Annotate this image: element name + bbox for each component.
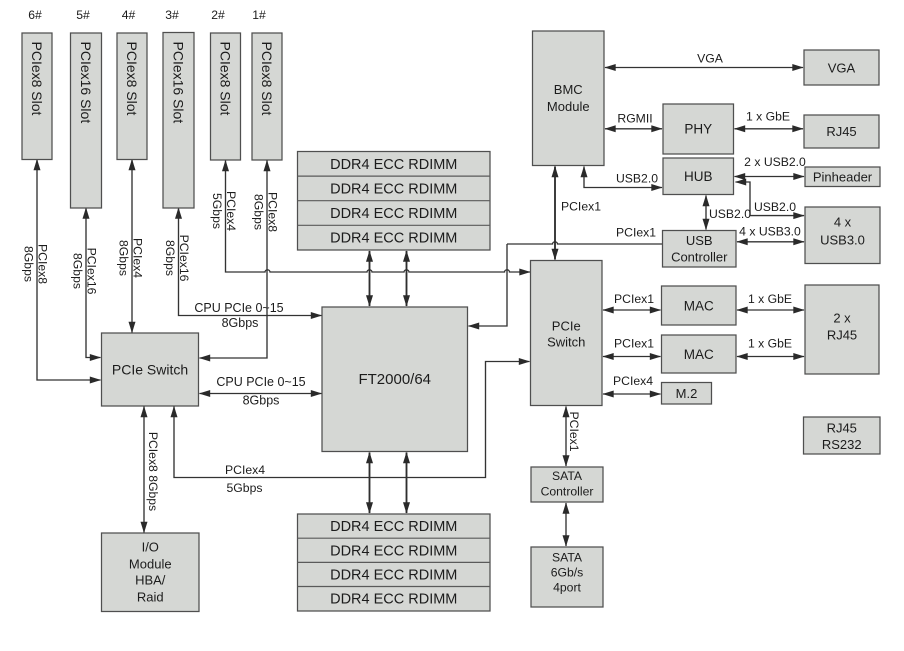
wire slot6 to left switch (22, 160, 101, 381)
wire node to USB controller PCIex1 (507, 226, 662, 245)
slot label 5# (76, 8, 90, 22)
wire slot5 to left switch (71, 208, 101, 358)
svg-text:PCIex8: PCIex8 (36, 244, 50, 284)
wire left switch to CPU (CPU PCIe 0~15 8Gbps) (200, 375, 322, 408)
svg-text:6Gb/s: 6Gb/s (551, 565, 584, 579)
svg-text:CPU PCIe 0~15: CPU PCIe 0~15 (216, 375, 305, 389)
upper DDR4 DIMM stack (298, 152, 491, 251)
svg-text:1#: 1# (252, 8, 266, 22)
svg-text:SATA: SATA (552, 550, 583, 564)
svg-text:I/O: I/O (142, 540, 159, 555)
svg-text:PCIex16 Slot: PCIex16 Slot (78, 42, 94, 124)
wire right switch to MAC1 PCIex1 (603, 292, 661, 310)
svg-text:FT2000/64: FT2000/64 (358, 371, 431, 388)
svg-text:USB: USB (686, 233, 713, 248)
wire upper DDR4 to CPU ch1 (369, 251, 371, 306)
svg-text:DDR4 ECC RDIMM: DDR4 ECC RDIMM (330, 157, 457, 173)
svg-text:8Gbps: 8Gbps (243, 394, 280, 408)
svg-text:8Gbps: 8Gbps (22, 246, 36, 282)
svg-text:PCIex4: PCIex4 (613, 374, 653, 388)
svg-text:4port: 4port (553, 580, 581, 594)
svg-text:2#: 2# (211, 8, 225, 22)
lower DDR4 DIMM stack (298, 514, 491, 611)
PCIe slot 5# (71, 33, 102, 208)
wire CPU right edge to node (469, 244, 508, 326)
svg-text:PCIex16: PCIex16 (177, 235, 191, 282)
svg-text:RS232: RS232 (822, 437, 862, 452)
svg-text:PCIex1: PCIex1 (567, 412, 581, 452)
svg-text:MAC: MAC (684, 347, 714, 362)
wire right switch to MAC2 PCIex1 (603, 337, 661, 357)
svg-text:DDR4 ECC RDIMM: DDR4 ECC RDIMM (330, 544, 457, 560)
wire slot1 to left switch right edge (200, 161, 280, 359)
svg-text:CPU PCIe 0~15: CPU PCIe 0~15 (194, 301, 283, 315)
svg-text:HBA/: HBA/ (135, 573, 166, 588)
PCIe slot 4# (117, 33, 147, 160)
svg-text:4 x: 4 x (834, 215, 852, 230)
svg-text:SATA: SATA (552, 469, 583, 483)
VGA connector (804, 50, 879, 85)
svg-text:PCIex8 Slot: PCIex8 Slot (259, 42, 275, 116)
slot label 3# (165, 8, 179, 22)
wire BMC to HUB USB2.0 (584, 167, 662, 188)
svg-text:VGA: VGA (697, 52, 724, 66)
svg-text:DDR4 ECC RDIMM: DDR4 ECC RDIMM (330, 231, 457, 247)
SATA 6Gb/s 4port (531, 547, 603, 607)
slot label 4# (122, 8, 136, 22)
svg-text:PCIex1: PCIex1 (616, 226, 656, 240)
svg-text:DDR4 ECC RDIMM: DDR4 ECC RDIMM (330, 519, 457, 535)
wire SATA controller to SATA ports (565, 503, 567, 546)
svg-text:PCIex8 8Gbps: PCIex8 8Gbps (146, 432, 160, 511)
svg-text:5#: 5# (76, 8, 90, 22)
svg-text:5Gbps: 5Gbps (210, 193, 224, 229)
CPU FT2000/64 (322, 307, 468, 452)
svg-text:USB2.0: USB2.0 (754, 200, 796, 214)
MAC 2 (662, 335, 737, 373)
svg-text:5Gbps: 5Gbps (227, 481, 263, 495)
RJ45 RS232 connector (804, 417, 881, 454)
svg-text:RJ45: RJ45 (827, 328, 857, 343)
svg-text:M.2: M.2 (676, 386, 698, 401)
svg-text:PCIex4: PCIex4 (225, 463, 265, 477)
wire lower DDR4 to CPU ch2 (406, 453, 408, 514)
PCIe slot 3# (163, 33, 194, 209)
svg-text:8Gbps: 8Gbps (222, 316, 259, 330)
RJ45 connector (804, 115, 879, 148)
wire upper DDR4 to CPU ch2 (406, 251, 408, 306)
SATA Controller (531, 467, 603, 502)
wire PHY to RJ45 1xGbE (735, 110, 804, 129)
svg-text:Controller: Controller (671, 250, 728, 265)
wire BMC to VGA (605, 52, 803, 68)
wire right switch to SATA controller PCIex1 (566, 407, 581, 467)
svg-text:DDR4 ECC RDIMM: DDR4 ECC RDIMM (330, 568, 457, 584)
svg-text:Module: Module (547, 99, 590, 114)
I/O Module HBA/Raid (102, 533, 200, 612)
PCIe slot 2# (211, 33, 241, 160)
svg-text:8Gbps: 8Gbps (252, 194, 266, 230)
svg-text:PCIex1: PCIex1 (614, 337, 654, 351)
2x RJ45 connector (805, 285, 879, 374)
wire USB controller to 4xUSB3.0 (737, 225, 804, 242)
USB Controller (663, 231, 737, 268)
PCIe slot 6# (22, 33, 52, 160)
svg-text:PCIe: PCIe (552, 319, 581, 334)
svg-text:6#: 6# (28, 8, 42, 22)
Pinheader (805, 167, 880, 187)
svg-text:Pinheader: Pinheader (813, 170, 873, 185)
slot label 6# (28, 8, 42, 22)
svg-text:4#: 4# (122, 8, 136, 22)
svg-text:8Gbps: 8Gbps (163, 240, 177, 276)
svg-text:1 x GbE: 1 x GbE (746, 110, 790, 124)
svg-text:MAC: MAC (684, 299, 714, 314)
svg-text:8Gbps: 8Gbps (117, 240, 131, 276)
svg-text:1 x GbE: 1 x GbE (748, 292, 792, 306)
svg-text:4 x USB3.0: 4 x USB3.0 (739, 225, 801, 239)
left PCIe Switch (102, 333, 199, 406)
svg-text:RJ45: RJ45 (826, 124, 856, 139)
svg-text:PCIe Switch: PCIe Switch (112, 361, 188, 377)
wire slot4 to left switch top (117, 160, 145, 333)
svg-text:PCIex1: PCIex1 (614, 292, 654, 306)
svg-text:8Gbps: 8Gbps (71, 253, 85, 289)
svg-text:2 x USB2.0: 2 x USB2.0 (744, 155, 806, 169)
svg-text:USB2.0: USB2.0 (709, 207, 751, 221)
svg-text:USB2.0: USB2.0 (616, 172, 658, 186)
svg-text:PHY: PHY (684, 122, 712, 137)
svg-text:DDR4 ECC RDIMM: DDR4 ECC RDIMM (330, 592, 457, 608)
right PCIe Switch (531, 261, 603, 406)
svg-text:BMC: BMC (554, 82, 583, 97)
svg-text:Controller: Controller (541, 484, 594, 498)
svg-text:HUB: HUB (684, 169, 713, 184)
MAC 1 (662, 286, 737, 325)
svg-text:RJ45: RJ45 (827, 421, 857, 436)
svg-text:PCIex16: PCIex16 (85, 248, 99, 295)
slot label 2# (211, 8, 225, 22)
wire HUB to Pinheader 2xUSB2.0 (735, 155, 807, 177)
wire MAC1 to 2xRJ45 1xGbE (737, 292, 804, 310)
wire MAC2 to 2xRJ45 1xGbE (737, 337, 804, 357)
BMC Module (533, 31, 605, 166)
svg-text:1 x GbE: 1 x GbE (748, 337, 792, 351)
wire slot2 across to right switch (210, 161, 530, 273)
svg-text:Module: Module (129, 557, 172, 572)
svg-text:PCIex8 Slot: PCIex8 Slot (124, 42, 140, 116)
svg-text:PCIex8 Slot: PCIex8 Slot (29, 42, 45, 116)
svg-text:PCIex8 Slot: PCIex8 Slot (218, 42, 234, 116)
PHY (663, 104, 734, 154)
svg-text:Switch: Switch (547, 335, 585, 350)
wire slot3 to CPU (CPU PCIe 0~15 8Gbps) (163, 208, 321, 330)
HUB (663, 158, 734, 195)
svg-text:DDR4 ECC RDIMM: DDR4 ECC RDIMM (330, 206, 457, 222)
svg-text:PCIex16 Slot: PCIex16 Slot (171, 42, 187, 124)
svg-text:PCIex8: PCIex8 (266, 192, 280, 232)
wire right switch to M.2 PCIex4 (603, 374, 661, 394)
wire BMC to PHY RGMII (605, 112, 662, 129)
wire BMC to right switch PCIex1 (555, 167, 601, 260)
svg-text:VGA: VGA (828, 61, 856, 76)
svg-text:PCIex1: PCIex1 (561, 199, 601, 213)
wire lower DDR4 to CPU ch1 (369, 453, 371, 514)
svg-text:3#: 3# (165, 8, 179, 22)
svg-text:2 x: 2 x (833, 311, 851, 326)
svg-text:RGMII: RGMII (617, 112, 652, 126)
4x USB3.0 connector (805, 207, 880, 264)
PCIe slot 1# (252, 33, 282, 160)
wire HUB to USB controller USB2.0 (706, 196, 751, 230)
wire left switch to right switch PCIex4 5Gbps (174, 362, 530, 496)
wire left switch to I/O module PCIex8 8Gbps (144, 407, 160, 533)
M.2 (662, 383, 712, 405)
svg-text:PCIex4: PCIex4 (131, 238, 145, 278)
wire HUB to 4xUSB3.0 box USB2.0 (736, 182, 805, 216)
svg-text:DDR4 ECC RDIMM: DDR4 ECC RDIMM (330, 182, 457, 198)
svg-text:Raid: Raid (137, 590, 164, 605)
svg-text:USB3.0: USB3.0 (820, 233, 865, 248)
svg-text:PCIex4: PCIex4 (224, 191, 238, 231)
slot label 1# (252, 8, 266, 22)
